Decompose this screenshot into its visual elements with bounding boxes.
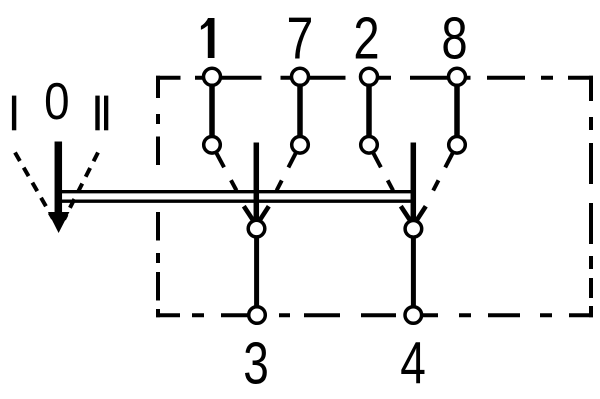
lever position II (dashed) bbox=[64, 153, 98, 220]
position label II bbox=[95, 96, 108, 131]
terminal label 1 bbox=[201, 18, 215, 58]
plunger shaft at pole 3 bbox=[254, 143, 260, 220]
fixed contact circle 8 bbox=[449, 137, 466, 154]
lever arrowhead bbox=[48, 212, 69, 233]
wire: pole 4 pivot to terminal 4 bbox=[411, 237, 416, 307]
wire: terminal 7 pin to fixed contact 7 bbox=[297, 86, 303, 136]
wire: terminal 8 pin to fixed contact 8 bbox=[454, 86, 460, 136]
enclosure outline: bottom edge (dash-dot) bbox=[156, 313, 593, 317]
svg-text:0: 0 bbox=[44, 73, 69, 130]
position label I bbox=[12, 96, 16, 131]
svg-text:7: 7 bbox=[287, 6, 314, 72]
terminal pin 3 bbox=[249, 307, 266, 324]
plunger shaft at pole 4 bbox=[411, 143, 417, 220]
fixed contact circle 1 bbox=[204, 137, 221, 154]
fixed contact circle 7 bbox=[292, 137, 309, 154]
moving contact arm from contact 8 (dashed) bbox=[433, 153, 452, 190]
enclosure outline: left edge (dash-dot) bbox=[156, 76, 160, 317]
wire: pole 3 pivot to terminal 3 bbox=[254, 237, 259, 307]
lever shaft (position 0) bbox=[55, 142, 63, 213]
enclosure outline: top edge (dash-dot) bbox=[156, 76, 593, 80]
terminal pin 4 bbox=[405, 307, 422, 324]
terminal pin 7 bbox=[292, 68, 309, 85]
terminal pin 2 bbox=[361, 68, 378, 85]
terminal pin 1 bbox=[204, 68, 221, 85]
moving contact arm from contact 2 (dashed) bbox=[373, 153, 393, 190]
plunger arrowhead at pole 4 bbox=[401, 206, 426, 220]
svg-text:4: 4 bbox=[400, 331, 426, 397]
moving contact arm from contact 7 (dashed) bbox=[277, 153, 296, 190]
pivot contact circle of pole 3 bbox=[248, 220, 265, 237]
plunger arrowhead at pole 3 bbox=[244, 206, 269, 220]
pivot contact circle of pole 4 bbox=[405, 221, 422, 238]
moving contact arm from contact 1 (dashed) bbox=[217, 153, 237, 190]
wire: terminal 2 pin to fixed contact 2 bbox=[366, 86, 372, 136]
actuator bar (mechanical coupling, double line) bbox=[56, 192, 416, 202]
terminal pin 8 bbox=[449, 68, 466, 85]
fixed contact circle 2 bbox=[361, 137, 378, 154]
enclosure outline: right edge (dash-dot) bbox=[589, 76, 593, 317]
lever position I (dashed) bbox=[15, 153, 53, 219]
svg-text:8: 8 bbox=[441, 7, 467, 72]
svg-text:2: 2 bbox=[353, 7, 379, 72]
svg-text:3: 3 bbox=[243, 331, 269, 397]
wire: terminal 1 pin to fixed contact 1 bbox=[209, 86, 215, 136]
